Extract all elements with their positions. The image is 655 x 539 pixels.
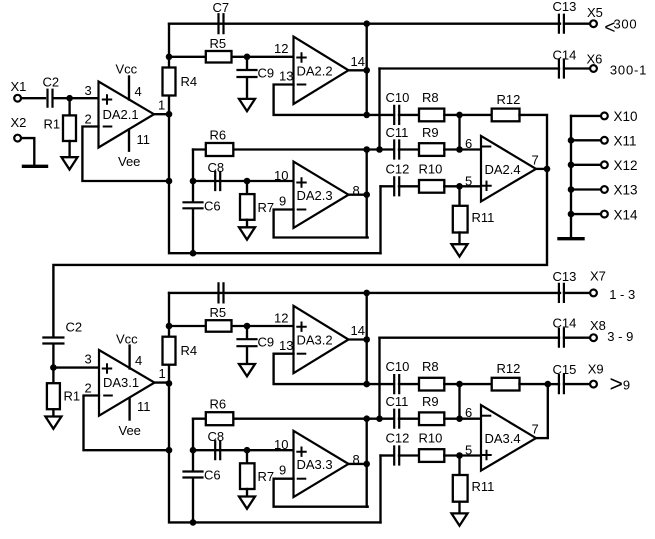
terminal X7 [590, 290, 597, 297]
node C15 junction [545, 381, 552, 388]
node pin5 [456, 452, 463, 459]
wire op-amp2 output [349, 69, 367, 71]
svg-text:12: 12 [274, 310, 288, 325]
node op-amp4 output [544, 166, 551, 173]
svg-text:R1: R1 [44, 117, 61, 132]
svg-text:C15: C15 [553, 362, 577, 377]
wire op-amp2 output vertical [366, 24, 368, 115]
resistor R12 [492, 378, 520, 391]
svg-text:X6: X6 [587, 52, 603, 67]
wire R7 stem [246, 450, 248, 463]
svg-text:DA2.2: DA2.2 [297, 63, 333, 78]
ground below C9 [239, 99, 255, 111]
wire R9 to pin 6 [444, 148, 481, 150]
terminal X14 [601, 211, 608, 218]
svg-text:R6: R6 [210, 397, 227, 412]
node X14 row junction [568, 211, 575, 218]
svg-text:1: 1 [159, 366, 166, 381]
resistor R11 [453, 206, 468, 233]
Vee pin wire [128, 130, 130, 151]
svg-text:DA2.1: DA2.1 [103, 107, 139, 122]
wire vertical to C11 row [378, 338, 380, 419]
capacitor (C7) [219, 283, 224, 302]
svg-text:3: 3 [85, 352, 92, 367]
svg-text:R9: R9 [422, 125, 439, 140]
svg-text:9: 9 [623, 378, 630, 393]
svg-text:13: 13 [279, 69, 293, 84]
wire R5 row [169, 325, 294, 327]
svg-text:300: 300 [614, 17, 638, 32]
svg-text:X8: X8 [590, 318, 606, 333]
op-amp DA3.3 [294, 431, 349, 497]
svg-text:6: 6 [465, 405, 472, 420]
ground bar of X10-X14 bus [559, 237, 583, 240]
svg-text:11: 11 [137, 399, 151, 414]
wire R10 to pin 5 [444, 454, 481, 456]
wire R12 to output column [520, 115, 548, 169]
node R5 row junction [166, 54, 173, 61]
svg-text:14: 14 [351, 54, 365, 69]
svg-text:X2: X2 [11, 115, 27, 130]
resistor R7 [240, 194, 255, 220]
svg-text:R7: R7 [258, 469, 275, 484]
svg-text:10: 10 [274, 437, 288, 452]
ground below C9 [239, 364, 255, 376]
svg-text:Vee: Vee [119, 423, 141, 438]
terminal X1 [14, 95, 21, 102]
wire DA2.4 output to bottom section input [53, 169, 547, 336]
node: C7 row / DA.2 output junction [363, 20, 370, 27]
svg-text:DA2.3: DA2.3 [297, 188, 333, 203]
wire C12 to R10 [399, 454, 419, 456]
resistor R11 stem [458, 186, 460, 206]
svg-text:DA3.1: DA3.1 [103, 375, 139, 390]
node pin6 [456, 146, 463, 153]
svg-text:2: 2 [85, 381, 92, 396]
svg-text:C2: C2 [43, 75, 60, 90]
ground bar below X2 [24, 165, 47, 168]
Vee pin wire (bottom) [128, 398, 130, 420]
wire R1 to ground (bottom) [52, 409, 54, 416]
wire R6-C11 row [193, 148, 393, 150]
wire pin 2 feedback loop (bottom) [84, 396, 170, 451]
wire C12 row vertical from bottom wire [379, 456, 381, 523]
wire C11 to R9 [399, 148, 419, 150]
wire R7 to ground [246, 220, 248, 228]
node R7 junction [244, 447, 251, 454]
ground below R11 [452, 513, 468, 525]
wire R7 stem [246, 181, 248, 194]
node X13 row junction [568, 186, 575, 193]
resistor R6 [206, 412, 234, 425]
svg-text:R8: R8 [422, 90, 439, 105]
svg-text:X9: X9 [588, 361, 604, 376]
resistor R5 [206, 51, 232, 63]
capacitor C2 (bottom) [43, 338, 63, 344]
resistor R4 [163, 68, 176, 96]
capacitor C11 [394, 141, 399, 159]
wire C8 row [193, 449, 294, 451]
svg-text:C13: C13 [553, 0, 577, 14]
terminal X8 [590, 334, 597, 341]
wire X1 to C2 [21, 97, 45, 99]
node pin6 [456, 415, 463, 422]
svg-text:X12: X12 [614, 158, 638, 173]
wire op-amp3 output [349, 194, 367, 196]
resistor R1 [63, 115, 76, 141]
wire op-amp3 output [349, 463, 367, 465]
wire C7 top row to C13 [169, 292, 560, 294]
wire DA3.4 output up to C15 row [547, 384, 549, 438]
wire C13 to X5 [564, 23, 590, 25]
svg-text:C9: C9 [258, 335, 275, 350]
resistor R9 [419, 412, 444, 425]
wire pin13 feedback loop [274, 85, 394, 115]
node op-amp3 output [363, 191, 370, 198]
capacitor C9 [238, 70, 257, 77]
capacitor C14 (bottom) [559, 329, 564, 347]
svg-text:X11: X11 [614, 134, 637, 149]
terminal X13 [601, 186, 608, 193]
wire X10 row [571, 115, 601, 117]
wire C14 to X6 [564, 67, 590, 69]
node feedback junction [166, 447, 173, 454]
node op-amp3 output [363, 461, 370, 468]
wire op-amp2 output [349, 338, 367, 340]
wire C2 to pin 3 [53, 97, 99, 99]
svg-text:C9: C9 [258, 66, 275, 81]
svg-text:DA3.3: DA3.3 [297, 457, 333, 472]
node op-amp 1 output [166, 380, 173, 387]
svg-text:R5: R5 [210, 305, 227, 320]
wire R7 to ground [246, 489, 248, 497]
svg-text:C8: C8 [208, 160, 225, 175]
node C9 junction [244, 54, 251, 61]
ground below R1 (bottom) [45, 417, 61, 429]
op-amp DA2.2 [294, 37, 349, 104]
svg-text:4: 4 [135, 84, 142, 99]
capacitor C12 [394, 177, 399, 195]
op-amp DA3.2 [294, 306, 349, 373]
wire C10 to R8 [399, 114, 419, 116]
wire C8 row [193, 180, 294, 182]
svg-text:13: 13 [279, 338, 293, 353]
wire C14 to X8 [564, 337, 590, 339]
node op-amp3 output column joins R6 row [363, 415, 370, 422]
svg-text:Vcc: Vcc [116, 332, 138, 347]
wire junction to pin6 row [458, 115, 460, 150]
wire R12 to output column [520, 383, 549, 385]
svg-text:7: 7 [532, 153, 539, 168]
wire C13 to X7 [564, 292, 590, 294]
svg-text:3 - 9: 3 - 9 [607, 329, 633, 344]
svg-text:C14: C14 [553, 48, 577, 63]
svg-text:C10: C10 [386, 90, 410, 105]
node input junction [66, 95, 73, 102]
node pin6 feed junction [456, 381, 463, 388]
svg-text:10: 10 [274, 168, 288, 183]
svg-text:DA3.4: DA3.4 [485, 431, 521, 446]
Vcc pin wire [128, 77, 130, 100]
svg-text:4: 4 [135, 353, 142, 368]
resistor R6 [206, 143, 234, 156]
node op-amp 1 output [166, 111, 173, 118]
svg-text:R8: R8 [422, 359, 439, 374]
svg-text:DA3.2: DA3.2 [297, 333, 333, 348]
svg-text:R4: R4 [181, 74, 198, 89]
wire R12 junction to C15 [548, 383, 559, 385]
wire X12 row [571, 164, 601, 166]
wire R5 row [169, 56, 294, 58]
svg-text:X1: X1 [11, 79, 27, 94]
wire C12 to R10 [399, 185, 419, 187]
capacitor C8 [215, 172, 220, 190]
wire C9 to ground [246, 348, 248, 364]
wire vertical to C11 row [378, 69, 380, 150]
wire R9 to pin 6 [444, 418, 481, 420]
node op-amp2 output [363, 67, 370, 74]
svg-text:C11: C11 [386, 125, 409, 140]
svg-text:X5: X5 [587, 5, 603, 20]
node op-amp2 output [363, 336, 370, 343]
terminal X10 [601, 113, 608, 120]
svg-text:R11: R11 [472, 479, 495, 494]
wire R8 to R12 row [444, 114, 491, 116]
wire op-amp3 output vertical [366, 150, 368, 238]
svg-text:X14: X14 [614, 207, 639, 222]
resistor R11 stem [458, 456, 460, 476]
terminal X6 [590, 65, 597, 72]
resistor R8 [419, 109, 444, 122]
resistor R12 [492, 109, 520, 122]
svg-text:C8: C8 [208, 429, 225, 444]
wire R11 to ground [458, 233, 460, 245]
svg-text:5: 5 [465, 443, 472, 458]
svg-text:11: 11 [137, 132, 151, 147]
wire R1 stem (bottom) [52, 368, 54, 384]
wire R1 stem [68, 98, 70, 115]
node pin6 feed junction [456, 112, 463, 119]
wire R1 to ground [68, 141, 70, 157]
svg-text:Vcc: Vcc [116, 62, 138, 77]
capacitor C6 [184, 202, 203, 208]
capacitor C10 [394, 375, 399, 393]
svg-text:C7: C7 [213, 0, 230, 15]
capacitor C7 [219, 14, 224, 33]
svg-text:14: 14 [351, 323, 365, 338]
wire op-amp2 output vertical [366, 293, 368, 384]
svg-text:R9: R9 [422, 394, 439, 409]
node C10 row junction [363, 112, 370, 119]
op-amp DA2.4 [481, 136, 536, 202]
node C10 row junction [363, 381, 370, 388]
ground below R7 [239, 227, 255, 239]
terminal X5 [590, 20, 597, 27]
wire R11 to ground [458, 502, 460, 514]
node R5 row junction [166, 323, 173, 330]
ground below R11 [452, 244, 468, 256]
svg-text:R12: R12 [497, 92, 521, 107]
wire R8 to R12 row [444, 383, 491, 385]
svg-text:R10: R10 [419, 431, 443, 446]
node C11 row [376, 415, 383, 422]
wire C15 to X9 [564, 383, 590, 385]
wire C6 bottom [192, 479, 194, 523]
node input junction (bottom) [50, 364, 57, 371]
wire junction to pin6 row [458, 384, 460, 419]
node op-amp3 output column joins R6 row [363, 146, 370, 153]
wire X2 to ground [21, 138, 34, 165]
node C8 row junction [190, 447, 197, 454]
wire C9 to ground [246, 79, 248, 99]
svg-text:12: 12 [274, 41, 288, 56]
wire pin9 feedback loop [274, 479, 368, 507]
capacitor C10 [394, 106, 399, 124]
svg-text:C14: C14 [553, 316, 577, 331]
svg-text:300-1: 300-1 [610, 62, 647, 77]
terminal X11 [601, 137, 608, 144]
svg-text:R6: R6 [210, 128, 227, 143]
svg-text:X13: X13 [614, 183, 638, 198]
wire R10 to pin 5 [444, 185, 481, 187]
node C9 junction [244, 323, 251, 330]
terminal X12 [601, 161, 608, 168]
resistor R5 [206, 320, 232, 332]
wire X13 row [571, 188, 601, 190]
svg-text:R12: R12 [497, 361, 521, 376]
wire C12 row [381, 185, 394, 187]
svg-text:R4: R4 [181, 343, 198, 358]
node C6 bottom junction [190, 519, 197, 526]
svg-text:C2: C2 [66, 320, 83, 335]
svg-text:1 - 3: 1 - 3 [609, 287, 635, 302]
svg-text:3: 3 [85, 83, 92, 98]
capacitor C13 [559, 15, 564, 33]
op-amp DA3.4 [481, 405, 536, 471]
resistor R11 [453, 475, 468, 502]
wire C14 row [380, 337, 560, 339]
svg-text:R7: R7 [258, 200, 275, 215]
resistor R1 (bottom) [47, 383, 60, 409]
node: C7 row / DA.2 output junction [363, 290, 370, 297]
ground below R7 [239, 497, 255, 509]
Vcc pin wire (bottom) [128, 346, 130, 369]
svg-text:R11: R11 [472, 210, 495, 225]
resistor R7 [240, 463, 255, 489]
resistor R10 [419, 180, 444, 193]
capacitor C14 [559, 60, 564, 78]
op-amp DA3.1 [99, 350, 155, 416]
wire C9 stem [246, 57, 248, 69]
wire pin 2 feedback loop [82, 127, 169, 182]
wire C9 stem [246, 326, 248, 338]
resistor R4 [163, 337, 176, 365]
wire pin9 feedback loop [274, 210, 368, 238]
capacitor C9 [238, 339, 257, 346]
svg-text:C12: C12 [386, 431, 410, 446]
resistor R8 [419, 378, 444, 391]
wire node-A vertical with C6 [192, 419, 194, 471]
svg-text:2: 2 [85, 112, 92, 127]
capacitor C6 [184, 472, 203, 478]
wire X14 row [571, 213, 601, 215]
wire pin13 feedback loop [274, 354, 394, 384]
terminal X9 [590, 381, 597, 388]
svg-text:Vee: Vee [118, 154, 140, 169]
wire C6 bottom [192, 209, 194, 253]
node C8 row junction [190, 178, 197, 185]
wire X11 row [571, 139, 601, 141]
node C6 bottom junction [190, 250, 197, 257]
wire DA3.1 output [155, 381, 170, 383]
capacitor C13 (bottom) [559, 284, 564, 302]
terminal X2 [14, 135, 21, 142]
svg-text:R5: R5 [210, 36, 227, 51]
svg-text:6: 6 [465, 136, 472, 151]
wire C12 row [381, 454, 394, 456]
op-amp DA2.3 [294, 162, 349, 228]
wire op-amp3 output vertical [366, 419, 368, 507]
capacitor C11 [394, 410, 399, 428]
wire DA2.1 output [154, 113, 169, 115]
wire C7 top row to C13 [169, 23, 560, 25]
ground below R1 [62, 157, 78, 169]
wire left bus vertical (op-amp 1 output node) [169, 293, 381, 523]
svg-text:X10: X10 [614, 109, 638, 124]
node X12 row junction [568, 162, 575, 169]
wire left bus vertical (op-amp 1 output node) [169, 24, 381, 254]
resistor R10 [419, 449, 444, 462]
node X11 row junction [568, 137, 575, 144]
wire C2 to pin 3 node [53, 345, 99, 368]
node R7 junction [244, 178, 251, 185]
op-amp DA2.1 [99, 82, 155, 148]
svg-text:DA2.4: DA2.4 [485, 162, 521, 177]
svg-text:C6: C6 [204, 199, 221, 214]
wire X10-X14 ground bus [570, 116, 572, 237]
svg-text:C6: C6 [204, 468, 221, 483]
capacitor C8 [215, 441, 220, 459]
wire C14 row [380, 67, 560, 69]
node C11 row [376, 146, 383, 153]
wire op-amp4 output [536, 168, 547, 170]
wire R6-C11 row [193, 418, 393, 420]
capacitor C12 [394, 447, 399, 465]
wire node-A vertical with C6 [192, 150, 194, 202]
node pin5 [456, 183, 463, 190]
svg-text:R1: R1 [64, 389, 81, 404]
svg-text:9: 9 [279, 463, 286, 478]
svg-text:>: > [610, 370, 623, 396]
svg-text:9: 9 [279, 194, 286, 209]
wire op-amp4 output [536, 437, 548, 439]
capacitor C2 [48, 90, 53, 107]
svg-text:7: 7 [532, 422, 539, 437]
svg-text:C11: C11 [386, 394, 409, 409]
node feedback junction [166, 178, 173, 185]
svg-text:R10: R10 [419, 162, 443, 177]
svg-text:5: 5 [465, 174, 472, 189]
svg-text:C13: C13 [553, 269, 577, 284]
wire C12 row vertical from bottom wire [379, 186, 381, 253]
wire C10 to R8 [399, 383, 419, 385]
svg-text:1: 1 [158, 98, 165, 113]
svg-text:X7: X7 [590, 269, 606, 284]
wire C11 to R9 [399, 418, 419, 420]
capacitor C15 [559, 375, 564, 393]
svg-text:C12: C12 [386, 162, 410, 177]
resistor R9 [419, 143, 444, 156]
